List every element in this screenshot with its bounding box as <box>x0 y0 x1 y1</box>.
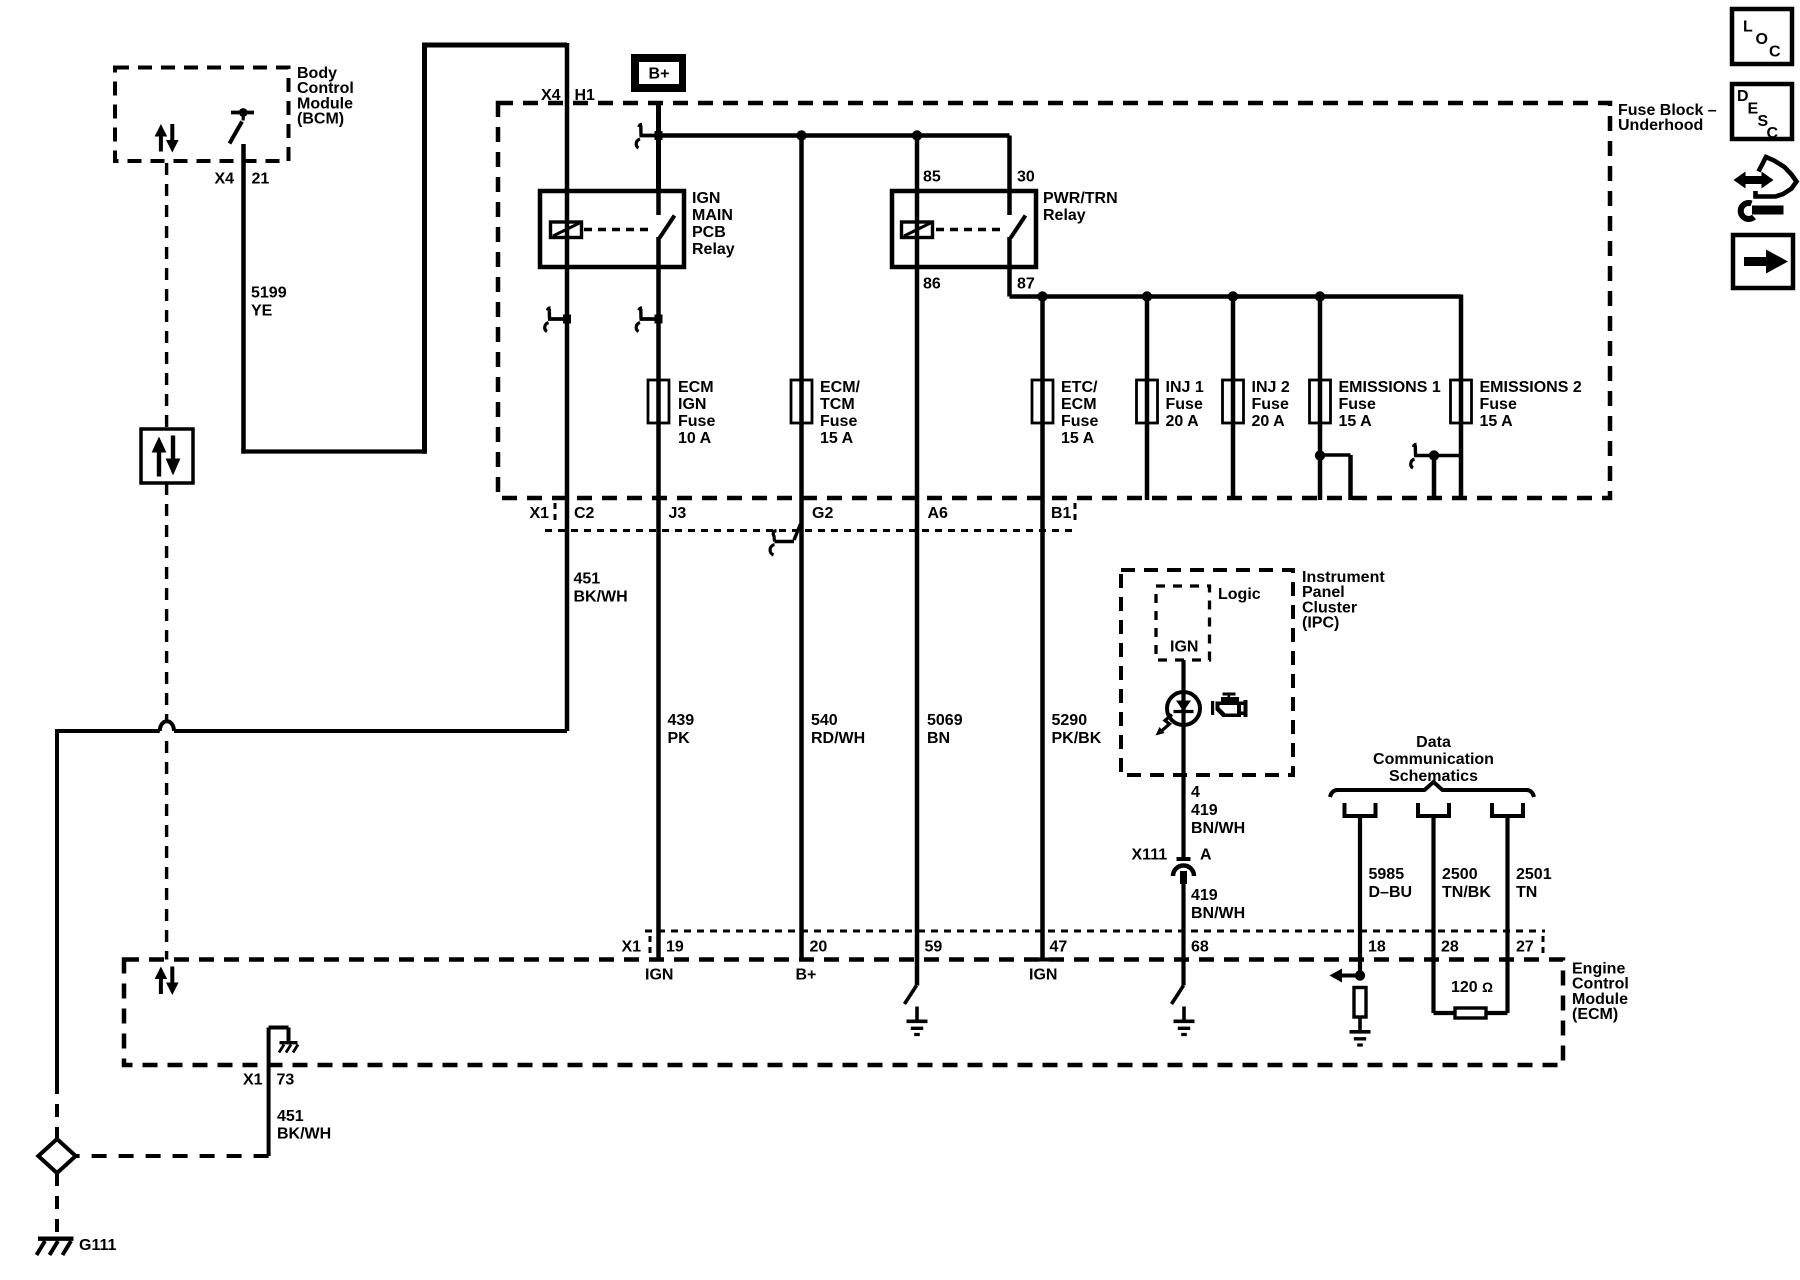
svg-text:5069: 5069 <box>927 712 963 729</box>
wire 5985 D-BU <box>1358 816 1362 976</box>
svg-text:INJ 2: INJ 2 <box>1252 379 1290 396</box>
module box Body Control Module (BCM) <box>115 68 289 162</box>
junction 87 bus (INJ 2 fuse) <box>1228 291 1238 301</box>
relay K1 coil wire through box <box>565 191 570 267</box>
svg-text:19: 19 <box>666 939 684 956</box>
module box Instrument Panel Cluster (IPC) <box>1121 570 1293 775</box>
svg-text:A6: A6 <box>928 505 949 522</box>
connector terminal clip at G2 <box>794 524 801 540</box>
wire (dashed) pin 73 to splice <box>76 1154 269 1158</box>
ECM internal up/down arrows (circuit continues) <box>159 978 163 995</box>
svg-text:B+: B+ <box>796 967 817 984</box>
svg-text:5199: 5199 <box>251 285 287 302</box>
icon box LOC <box>1732 9 1792 64</box>
svg-text:A: A <box>1200 847 1212 864</box>
terminating resistor at pin 18 <box>1354 988 1366 1018</box>
svg-text:EMISSIONS 2: EMISSIONS 2 <box>1480 379 1582 396</box>
resistor 120 ohm (bus termination) <box>1455 1008 1486 1018</box>
svg-text:20: 20 <box>810 939 828 956</box>
svg-text:87: 87 <box>1017 276 1035 293</box>
wire pin 28 to resistor <box>1434 1011 1456 1015</box>
fuse F7 EMISSIONS 2 Fuse 15 A <box>1451 380 1472 423</box>
svg-text:86: 86 <box>923 276 941 293</box>
svg-text:Fuse: Fuse <box>678 413 715 430</box>
svg-text:Fuse: Fuse <box>1166 396 1203 413</box>
svg-text:ECM: ECM <box>678 379 714 396</box>
indicator LED (MIL) circle <box>1167 692 1200 725</box>
svg-text:MAIN: MAIN <box>692 207 733 224</box>
svg-text:18: 18 <box>1368 939 1386 956</box>
svg-text:Fuse: Fuse <box>820 413 857 430</box>
icon box forward arrow <box>1733 235 1793 288</box>
wire 5199 YE vertical from BCM pin 21 <box>241 144 246 454</box>
relay K2 switch output stub (pin 87) <box>1007 237 1012 297</box>
svg-text:TN/BK: TN/BK <box>1442 884 1491 901</box>
wire 5199 YE riser <box>422 45 427 454</box>
splice diamond (ground distribution) <box>38 1139 75 1173</box>
wire relay K2 coil low side (86) to A6 and ECM pin 59 <box>915 267 920 986</box>
svg-text:TN: TN <box>1516 884 1537 901</box>
wire EMISSIONS 1 fuse feed <box>1318 297 1323 501</box>
junction below EMISSIONS 2 fuse <box>1429 450 1439 460</box>
svg-text:85: 85 <box>923 169 941 186</box>
svg-text:B+: B+ <box>649 66 670 83</box>
svg-text:X4: X4 <box>215 171 235 188</box>
svg-text:73: 73 <box>277 1072 295 1089</box>
svg-text:ETC/: ETC/ <box>1061 379 1098 396</box>
svg-text:5290: 5290 <box>1052 712 1088 729</box>
svg-text:Logic: Logic <box>1218 586 1261 603</box>
svg-text:BN/WH: BN/WH <box>1191 905 1245 922</box>
switch S1 inside BCM (ignition output driver) <box>231 111 254 115</box>
connector symbol box with up/down arrows (in-line continuation) <box>141 429 193 483</box>
wire pin 27 to resistor <box>1486 1011 1508 1015</box>
pin 59 internal switch blade <box>905 986 917 1005</box>
svg-text:59: 59 <box>925 939 943 956</box>
junction on B+ bus (PWR/TRN relay coil tap) <box>912 130 922 140</box>
fuse F5 INJ 2 Fuse 20 A <box>1223 380 1244 423</box>
svg-text:15 A: 15 A <box>1480 413 1514 430</box>
svg-text:TCM: TCM <box>820 396 855 413</box>
connector terminal clip on switched output <box>636 308 662 332</box>
svg-text:YE: YE <box>251 303 273 320</box>
svg-text:L: L <box>1743 19 1753 36</box>
svg-text:X1: X1 <box>530 505 550 522</box>
wire ETC/ECM fuse feed <box>1040 297 1045 960</box>
power feed symbol B+ <box>631 54 686 92</box>
wire 451 BK/WH left drop (solid) <box>55 729 59 1081</box>
svg-text:X111: X111 <box>1132 847 1168 864</box>
svg-text:15 A: 15 A <box>1339 413 1373 430</box>
svg-text:X4: X4 <box>541 87 561 104</box>
in-line connector X111 terminal A <box>1177 857 1191 861</box>
relay K2 switch fixed contact (pin 30) <box>1007 136 1012 216</box>
svg-text:27: 27 <box>1516 939 1534 956</box>
wire (dashed) to ground splice <box>55 1081 59 1140</box>
svg-text:Fuse: Fuse <box>1480 396 1517 413</box>
ECM internal ground (pin 73 chassis symbol) <box>269 1026 289 1030</box>
wire 451 BK/WH horizontal run (right) <box>174 729 567 733</box>
relay K2 actuation dashed link <box>936 228 1006 232</box>
relay K1 IGN MAIN PCB Relay box <box>540 191 684 267</box>
ground symbol at pin 68 <box>1182 1007 1186 1022</box>
module box Engine Control Module (ECM) <box>124 960 1563 1066</box>
svg-text:439: 439 <box>668 712 695 729</box>
wire EMISSIONS 2 fuse feed <box>1459 295 1464 501</box>
wire relay K1 coil low side to C2 <box>565 267 570 731</box>
DLC branch connector 3 <box>1492 803 1523 816</box>
svg-text:20 A: 20 A <box>1252 413 1286 430</box>
svg-text:Fuse: Fuse <box>1252 396 1289 413</box>
wire (dashed) BCM ground reference lower segment <box>165 741 168 960</box>
svg-text:C2: C2 <box>574 505 595 522</box>
wire (dashed) BCM ground reference upper segment <box>165 163 168 429</box>
ECM strip tick left <box>649 936 652 957</box>
junction 87 bus (EMISSIONS 1 fuse) <box>1315 291 1325 301</box>
svg-text:451: 451 <box>277 1108 304 1125</box>
wire 5199 YE top horizontal <box>422 43 567 48</box>
svg-text:2500: 2500 <box>1442 866 1478 883</box>
svg-text:Data: Data <box>1416 734 1451 751</box>
connector strip tick left <box>554 503 557 525</box>
svg-text:Relay: Relay <box>1043 207 1086 224</box>
icon box DESC <box>1732 84 1792 139</box>
fuse F2 ECM/TCM Fuse 15 A <box>791 380 812 423</box>
connector strip tick right <box>1074 503 1077 525</box>
wire hop-over at dashed wire crossing <box>160 721 174 731</box>
fuse F3 ETC/ECM Fuse 15 A <box>1032 380 1053 423</box>
relay K2 coil <box>902 222 933 238</box>
svg-text:47: 47 <box>1050 939 1068 956</box>
junction 87 bus (INJ 1 fuse) <box>1142 291 1152 301</box>
connector terminal clip on B+ feed <box>636 125 662 149</box>
svg-text:BK/WH: BK/WH <box>277 1126 331 1143</box>
svg-text:30: 30 <box>1017 169 1035 186</box>
svg-text:INJ 1: INJ 1 <box>1166 379 1204 396</box>
wire IPC indicator feed (above X111) <box>1181 660 1185 857</box>
wire EMISSIONS 2 output jog <box>1414 454 1461 458</box>
svg-text:20 A: 20 A <box>1166 413 1200 430</box>
connector strip X1 lower dashed line <box>545 529 1078 532</box>
wire EMISSIONS 1 output jog <box>1320 453 1351 457</box>
svg-text:IGN: IGN <box>645 967 673 984</box>
svg-text:Communication: Communication <box>1373 751 1494 768</box>
svg-text:J3: J3 <box>669 505 687 522</box>
svg-text:B1: B1 <box>1051 505 1072 522</box>
svg-text:419: 419 <box>1191 887 1218 904</box>
svg-text:Underhood: Underhood <box>1618 117 1703 134</box>
svg-text:(BCM): (BCM) <box>297 111 344 128</box>
svg-text:H1: H1 <box>575 87 596 104</box>
svg-text:BK/WH: BK/WH <box>574 589 628 606</box>
LED emission arrow <box>1162 715 1173 732</box>
svg-text:ECM/: ECM/ <box>820 379 861 396</box>
svg-text:15 A: 15 A <box>820 430 854 447</box>
svg-text:O: O <box>1756 31 1768 48</box>
svg-text:EMISSIONS 1: EMISSIONS 1 <box>1339 379 1441 396</box>
DLC branch connector 1 <box>1345 803 1376 816</box>
svg-text:D–BU: D–BU <box>1369 884 1413 901</box>
wire X4-H1 feed into fuse block <box>565 43 570 191</box>
svg-text:(IPC): (IPC) <box>1302 615 1339 632</box>
svg-text:4: 4 <box>1191 784 1200 801</box>
junction below EMISSIONS 1 fuse <box>1315 450 1325 460</box>
relay K1 switch fixed contact <box>656 191 661 215</box>
wire 5199 YE bottom horizontal <box>241 449 424 453</box>
connector terminal clip on EMISSIONS 2 output <box>1411 445 1417 469</box>
svg-text:PCB: PCB <box>692 224 726 241</box>
logic block inside IPC <box>1156 586 1210 660</box>
svg-text:C: C <box>1769 44 1781 61</box>
svg-text:ECM: ECM <box>1061 396 1097 413</box>
ECM X1 connector strip dashed line <box>645 930 1545 933</box>
svg-text:Relay: Relay <box>692 241 735 258</box>
pin 47 termination tick <box>1036 958 1049 962</box>
svg-text:X1: X1 <box>622 939 642 956</box>
svg-text:PK/BK: PK/BK <box>1052 730 1102 747</box>
svg-text:451: 451 <box>574 571 601 588</box>
wire 2501 TN <box>1505 816 1509 1013</box>
relay K2 PWR/TRN Relay box <box>892 191 1036 267</box>
icon schematic navigation (arrows and wrench) <box>1756 157 1797 197</box>
svg-text:G111: G111 <box>79 1237 116 1254</box>
fuse F1 ECM IGN Fuse 10 A <box>648 380 669 423</box>
svg-text:G2: G2 <box>812 505 833 522</box>
svg-text:IGN: IGN <box>692 190 720 207</box>
bus from B+ to relays <box>659 133 1010 138</box>
svg-text:IGN: IGN <box>678 396 706 413</box>
svg-text:BN: BN <box>927 730 950 747</box>
svg-text:10 A: 10 A <box>678 430 712 447</box>
relay K1 switch blade <box>660 216 675 239</box>
svg-text:5985: 5985 <box>1369 866 1405 883</box>
svg-text:PWR/TRN: PWR/TRN <box>1043 190 1118 207</box>
svg-text:(ECM): (ECM) <box>1572 1006 1618 1023</box>
brace (refer to data communication schematics) <box>1330 782 1534 797</box>
ground symbol below pin 18 resistor <box>1358 1017 1362 1032</box>
wire ECM/TCM fuse feed <box>799 136 804 960</box>
relay K2 coil wire through box <box>915 136 920 268</box>
wire pin 73 ground lead <box>267 1028 271 1157</box>
wire (dashed) BCM ground reference mid segment <box>165 483 168 720</box>
svg-text:28: 28 <box>1441 939 1459 956</box>
pin 68 internal switch blade <box>1172 986 1184 1005</box>
ground symbol at pin 59 <box>915 1007 919 1022</box>
svg-text:Fuse: Fuse <box>1061 413 1098 430</box>
wire 2500 TN/BK <box>1431 816 1435 1013</box>
serial data arrow (to data link) <box>1341 974 1360 978</box>
svg-text:IGN: IGN <box>1170 639 1198 656</box>
svg-text:IGN: IGN <box>1029 967 1057 984</box>
svg-text:2501: 2501 <box>1516 866 1552 883</box>
svg-text:21: 21 <box>252 171 270 188</box>
svg-text:540: 540 <box>811 712 838 729</box>
junction on B+ bus (ECM/TCM fuse tap) <box>796 130 806 140</box>
wire INJ 1 fuse feed <box>1145 297 1150 501</box>
wire relay K1 switched output <box>656 237 661 960</box>
svg-text:419: 419 <box>1191 802 1218 819</box>
wire B+ feed <box>656 103 661 191</box>
svg-text:RD/WH: RD/WH <box>811 730 865 747</box>
wire 451 BK/WH horizontal run (left) <box>57 729 160 733</box>
fuse F4 INJ 1 Fuse 20 A <box>1137 380 1158 423</box>
svg-text:68: 68 <box>1191 939 1209 956</box>
svg-text:120 Ω: 120 Ω <box>1451 979 1493 996</box>
wire (dashed) splice to G111 <box>55 1173 59 1237</box>
junction at pin 18 (serial data) <box>1355 970 1365 980</box>
connector terminal clip on C2 wire <box>545 308 571 332</box>
BCM internal up/down arrows (circuit continues) <box>159 135 163 152</box>
wire INJ 2 fuse feed <box>1231 297 1236 501</box>
relay K1 coil <box>551 222 582 238</box>
bus from relay K2 pin 87 <box>1010 294 1462 299</box>
junction 87 bus (ETC/ECM fuse) <box>1037 291 1047 301</box>
svg-text:Fuse: Fuse <box>1339 396 1376 413</box>
check engine (MIL) icon <box>1223 693 1236 696</box>
module box Fuse Block - Underhood <box>498 103 1610 498</box>
chassis ground G111 <box>38 1236 74 1240</box>
svg-text:BN/WH: BN/WH <box>1191 820 1245 837</box>
relay K2 switch blade <box>1011 216 1026 239</box>
fuse F6 EMISSIONS 1 Fuse 15 A <box>1310 380 1331 423</box>
DLC branch connector 2 <box>1418 803 1449 816</box>
svg-text:C: C <box>1767 125 1779 142</box>
wire 419 BN/WH below X111 to ECM pin 68 <box>1181 871 1185 986</box>
svg-text:X1: X1 <box>243 1072 263 1089</box>
ECM strip tick right <box>1542 936 1545 957</box>
relay K1 actuation dashed link <box>584 228 654 232</box>
svg-text:PK: PK <box>668 730 691 747</box>
svg-text:15 A: 15 A <box>1061 430 1095 447</box>
